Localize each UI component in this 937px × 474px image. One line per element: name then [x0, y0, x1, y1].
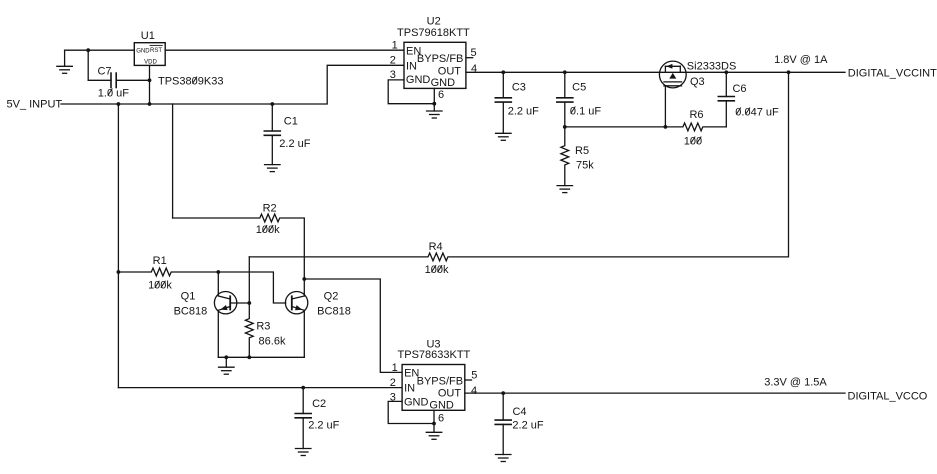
node junction R1/left drop [117, 270, 121, 274]
svg-text:R1: R1 [153, 255, 167, 267]
svg-text:5: 5 [470, 47, 476, 59]
wire U1 GND pin to ground [65, 49, 135, 51]
capacitor C3 [495, 72, 511, 133]
ground U3 [426, 432, 442, 439]
node junction U3 gnd [432, 422, 436, 426]
pin 6 U2 [438, 89, 444, 101]
capacitor C4 [495, 393, 511, 454]
svg-text:U1: U1 [141, 30, 155, 42]
pin 3 U3 [390, 392, 396, 404]
wire U1 VDD to 5V rail [149, 65, 151, 104]
svg-text:BC818: BC818 [174, 306, 208, 318]
svg-text:OUT: OUT [438, 388, 462, 400]
ground C3 [496, 133, 512, 140]
node 5V_INPUT label [7, 99, 63, 111]
svg-text:R3: R3 [256, 320, 270, 332]
node DIGITAL_VCCINT label [848, 68, 937, 80]
wire U2 pin5 stub [466, 57, 473, 59]
svg-text:Q3: Q3 [690, 76, 705, 88]
svg-text:100k: 100k [256, 224, 280, 236]
pin 1 U2 [392, 40, 398, 52]
svg-text:C5: C5 [572, 82, 586, 94]
op-amp U1 supervisor TPS3809K33 [134, 43, 165, 66]
svg-text:100: 100 [684, 135, 702, 147]
wire mid vertical drop to R2 [172, 104, 174, 218]
op-amp U2 regulator TPS79618KTT [404, 42, 466, 88]
svg-text:C1: C1 [284, 115, 298, 127]
node junction Q1 base / R3 [247, 301, 251, 305]
ground R5 [557, 186, 573, 193]
wire 3.3V output rail [465, 392, 845, 394]
svg-text:1: 1 [392, 362, 398, 374]
wire 1.8V output rail [466, 71, 845, 73]
node junction gate/R6 [664, 125, 668, 129]
ground C2 [295, 449, 311, 456]
ground top-left [57, 50, 73, 73]
svg-text:75k: 75k [576, 160, 594, 172]
transistor Q2 BC818 [285, 292, 307, 358]
node junction C4/rail [501, 391, 505, 395]
svg-text:2.2 uF: 2.2 uF [508, 105, 539, 117]
wire emitter rail [218, 356, 304, 358]
wire 5V input rail [61, 65, 404, 104]
svg-text:86.6k: 86.6k [259, 335, 286, 347]
svg-text:5V_ INPUT: 5V_ INPUT [7, 99, 63, 111]
svg-text:GND: GND [136, 48, 150, 54]
wire Q2 collector to U3 EN [304, 279, 402, 372]
pin 4 U2 [471, 63, 477, 75]
node junction VDD/C7 [148, 78, 152, 82]
op-amp U3 regulator TPS78633KTT [402, 365, 465, 411]
svg-text:GND: GND [429, 400, 454, 412]
svg-text:IN: IN [406, 60, 417, 72]
capacitor C1 [264, 104, 280, 165]
svg-text:DIGITAL_VCCO: DIGITAL_VCCO [848, 390, 928, 402]
pin 5 U2 [470, 47, 476, 59]
wire U3 pin3 and pin6 to ground [388, 401, 434, 432]
transistor Q3 Si2333DS MOSFET [659, 61, 686, 127]
pin 6 U3 [438, 412, 444, 424]
svg-text:R4: R4 [429, 241, 443, 253]
svg-text:C4: C4 [512, 406, 526, 418]
svg-text:Q2: Q2 [324, 291, 339, 303]
resistor R5 [561, 127, 569, 186]
node junction C6/rail [724, 70, 728, 74]
svg-text:6: 6 [438, 89, 444, 101]
svg-text:2.2 uF: 2.2 uF [308, 419, 339, 431]
node DIGITAL_VCCO label [848, 390, 928, 402]
node junction U2 gnd [432, 102, 436, 106]
node 1.8V label [774, 54, 828, 66]
wire left vertical drop 5V [117, 104, 119, 388]
svg-text:Si2333DS: Si2333DS [687, 61, 737, 73]
svg-text:GND: GND [431, 77, 456, 89]
node junction C3/rail [501, 70, 505, 74]
svg-text:100k: 100k [425, 264, 449, 276]
capacitor C7 [88, 50, 149, 87]
transistor Q1 BC818 [214, 272, 249, 357]
node junction Q2 collector / EN wire [302, 277, 306, 281]
pin 1 U3 [392, 362, 398, 374]
svg-text:DIGITAL_VCCINT: DIGITAL_VCCINT [848, 68, 937, 80]
wire U2 pin3 and pin6 to ground [388, 80, 434, 111]
wire U3 pin5 stub [465, 379, 472, 381]
node junction C2/bottom rail [301, 386, 305, 390]
svg-text:TPS79618KTT: TPS79618KTT [397, 27, 470, 39]
svg-text:GND: GND [404, 396, 429, 408]
svg-text:6: 6 [438, 412, 444, 424]
resistor R2 [173, 214, 305, 296]
svg-text:0.047 uF: 0.047 uF [735, 106, 779, 118]
svg-text:2: 2 [390, 55, 396, 67]
svg-text:100k: 100k [148, 280, 172, 292]
svg-text:2.2 uF: 2.2 uF [512, 419, 543, 431]
resistor R3 [245, 257, 253, 357]
svg-text:IN: IN [404, 383, 415, 395]
resistor R1 [118, 268, 218, 276]
svg-text:BC818: BC818 [317, 306, 351, 318]
ground C4 [495, 455, 511, 462]
svg-text:GND: GND [406, 74, 431, 86]
capacitor C5 [557, 72, 573, 127]
svg-text:1.8V @ 1A: 1.8V @ 1A [774, 54, 828, 66]
ground U2 [427, 111, 443, 118]
svg-text:TPS3809K33: TPS3809K33 [158, 75, 223, 87]
pin 4 U3 [471, 385, 477, 397]
wire RST to U2 EN [165, 49, 404, 51]
capacitor C2 [295, 388, 311, 449]
svg-text:C2: C2 [312, 398, 326, 410]
svg-text:2.2 uF: 2.2 uF [279, 138, 310, 150]
svg-text:C3: C3 [512, 82, 526, 94]
resistor R4 [249, 72, 788, 260]
svg-text:1.0 uF: 1.0 uF [98, 87, 129, 99]
capacitor C6 [718, 72, 734, 127]
node junction C5/rail [563, 70, 567, 74]
pin 2 U2 [390, 55, 396, 67]
svg-text:OUT: OUT [438, 65, 462, 77]
pin 2 U3 [390, 377, 396, 389]
wire bottom 5V rail to U3 IN [118, 387, 402, 389]
node junction VDD/5V rail [148, 102, 152, 106]
svg-text:R6: R6 [689, 109, 703, 121]
svg-text:C6: C6 [732, 83, 746, 95]
node junction C1/5V rail [270, 102, 274, 106]
resistor R6 [565, 123, 727, 131]
svg-text:BYPS/FB: BYPS/FB [417, 53, 463, 65]
svg-text:3.3V @ 1.5A: 3.3V @ 1.5A [764, 376, 827, 388]
ground emitter rail [219, 357, 235, 374]
svg-text:4: 4 [471, 63, 477, 75]
wire R1 junction to Q2 base [218, 272, 285, 303]
node 3.3V label [764, 376, 827, 388]
svg-text:5: 5 [471, 370, 477, 382]
node junction dot C7 top [86, 48, 90, 52]
svg-text:TPS78633KTT: TPS78633KTT [398, 349, 471, 361]
pin 3 U2 [390, 69, 396, 81]
svg-text:C7: C7 [97, 66, 111, 78]
svg-text:RST: RST [150, 48, 162, 54]
ground C1 [265, 165, 281, 172]
svg-text:R2: R2 [263, 203, 277, 215]
node junction rail/R3 [247, 355, 251, 359]
svg-text:VDD: VDD [144, 59, 157, 65]
svg-text:1: 1 [392, 40, 398, 52]
svg-text:Q1: Q1 [181, 291, 196, 303]
svg-text:4: 4 [471, 385, 477, 397]
node junction rail/ground [224, 355, 228, 359]
node junction R4 riser/rail [787, 70, 791, 74]
node junction left drop/5V rail [117, 102, 121, 106]
svg-text:BYPS/FB: BYPS/FB [417, 375, 463, 387]
node junction C5/R5 [563, 125, 567, 129]
pin 5 U3 [471, 370, 477, 382]
svg-text:2: 2 [390, 377, 396, 389]
node junction R1/Q1 collector [216, 270, 220, 274]
svg-text:R5: R5 [575, 145, 589, 157]
